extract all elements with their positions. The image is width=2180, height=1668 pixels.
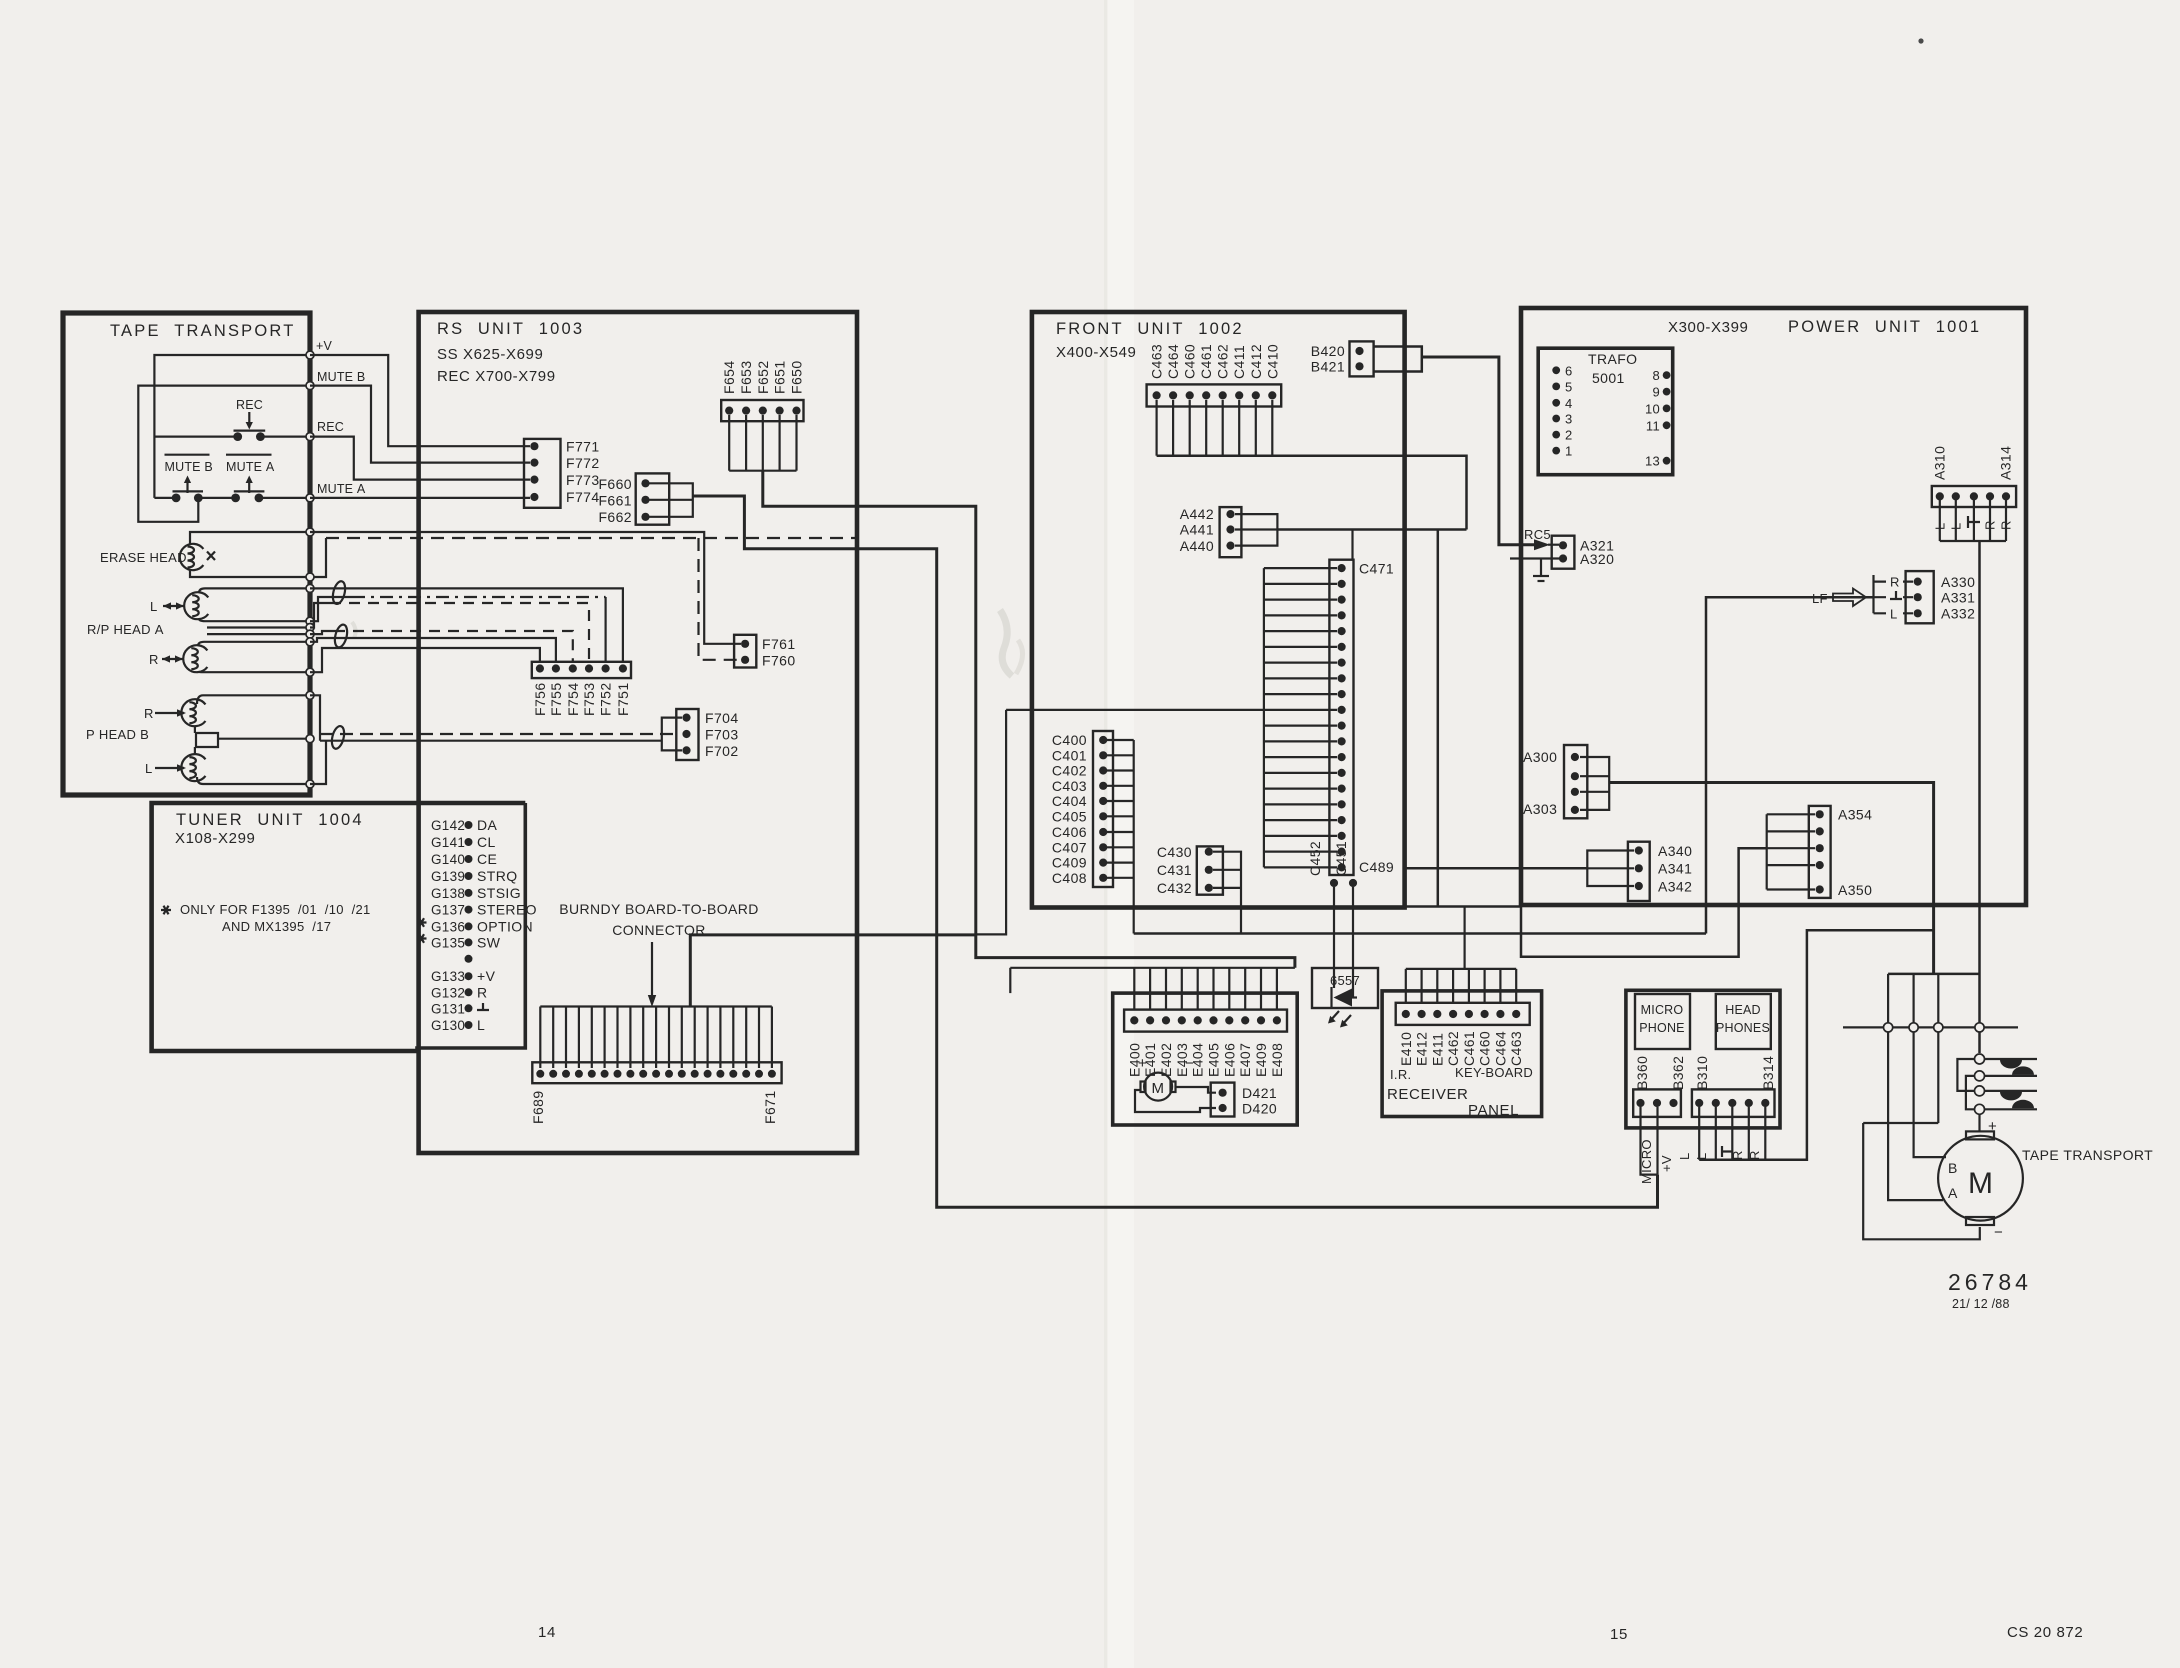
svg-text:C463: C463 <box>1508 1031 1524 1066</box>
wire MUTE A to F774 <box>310 497 530 499</box>
svg-text:A341: A341 <box>1658 861 1692 877</box>
svg-text:A332: A332 <box>1941 606 1975 622</box>
pin C451 <box>1349 879 1357 887</box>
svg-text:A320: A320 <box>1580 551 1614 567</box>
rail crossing junctions <box>1884 1023 1893 1032</box>
connector A310-A314 box <box>1932 486 2016 507</box>
svg-text:C461: C461 <box>1198 344 1214 379</box>
svg-text:F651: F651 <box>772 360 788 394</box>
svg-text:PHONE: PHONE <box>1639 1021 1684 1035</box>
connector A300-A303 box <box>1564 745 1587 818</box>
svg-text:HEAD: HEAD <box>1725 1003 1761 1017</box>
unit box RECEIVER PANEL <box>1382 991 1542 1117</box>
wire receiver bus <box>1406 968 1516 970</box>
svg-text:MUTE A: MUTE A <box>226 460 275 474</box>
svg-text:REC X700-X799: REC X700-X799 <box>437 368 556 385</box>
connector A354-A350 box <box>1809 806 1831 898</box>
svg-text:B314: B314 <box>1760 1056 1776 1090</box>
svg-text:A331: A331 <box>1941 590 1975 606</box>
svg-text:DA: DA <box>477 817 498 833</box>
cable tie ellipse A-R <box>333 623 349 648</box>
svg-text:F752: F752 <box>598 682 614 716</box>
svg-text:F652: F652 <box>755 360 771 394</box>
unit box RS UNIT 1003 <box>419 312 857 1153</box>
unit box FRONT UNIT 1002 <box>1032 312 1405 908</box>
wire head B-L bottom <box>197 777 310 784</box>
svg-text:15: 15 <box>1610 1626 1628 1643</box>
svg-text:F653: F653 <box>738 360 754 394</box>
svg-text:C410: C410 <box>1264 344 1280 379</box>
svg-text:+V: +V <box>477 968 496 984</box>
erase head symbol <box>180 544 204 570</box>
connector F756-F751 box <box>532 662 631 678</box>
svg-text:SS X625-X699: SS X625-X699 <box>437 346 543 363</box>
svg-text:F662: F662 <box>598 509 632 525</box>
wire A44x bus to gap riser <box>1277 528 1466 531</box>
wire gap down-leg to corner line <box>1437 530 1440 907</box>
speck <box>1918 38 1923 43</box>
svg-text:FRONT UNIT 1002: FRONT UNIT 1002 <box>1056 320 1244 338</box>
wire C46x keyboard bus <box>1157 456 1467 530</box>
wire head A-R top <box>198 642 310 646</box>
svg-text:C400: C400 <box>1052 732 1087 748</box>
connector A442-A440 box <box>1220 507 1242 557</box>
connector B420-B421 pins <box>1355 347 1363 355</box>
svg-text:R: R <box>149 652 159 667</box>
svg-text:C463: C463 <box>1149 344 1165 379</box>
svg-text:C402: C402 <box>1052 763 1087 779</box>
svg-text:C432: C432 <box>1157 880 1192 896</box>
svg-text:E405: E405 <box>1206 1043 1222 1077</box>
svg-text:8: 8 <box>1652 368 1660 383</box>
svg-text:14: 14 <box>538 1624 556 1641</box>
junctions tape transport edge <box>306 351 314 359</box>
svg-text:TAPE TRANSPORT: TAPE TRANSPORT <box>110 322 296 340</box>
wire contact4 to motor plus <box>1978 1114 1980 1131</box>
svg-text:C460: C460 <box>1182 344 1198 379</box>
motor M1 symbol <box>1144 1073 1172 1101</box>
cable tie ellipse B <box>330 725 346 750</box>
wire bus drop to motor B <box>1914 974 1946 1157</box>
wire A44x stub to C471 box <box>1351 530 1353 560</box>
wire A34x bracket <box>1587 851 1634 887</box>
wire F65x drops to bus <box>728 415 730 471</box>
connector C400-C408 box <box>1093 731 1113 887</box>
connector F704-F702 box <box>676 709 698 760</box>
svg-text:C407: C407 <box>1052 839 1087 855</box>
svg-text:B: B <box>1948 1160 1958 1176</box>
switch S-REC actuator arrow <box>248 412 250 424</box>
svg-text:A354: A354 <box>1838 807 1872 823</box>
wire pair head A-L return to F752 <box>310 597 352 621</box>
svg-text:C452: C452 <box>1307 841 1323 876</box>
svg-text:F774: F774 <box>566 489 600 505</box>
svg-text:A340: A340 <box>1658 843 1692 859</box>
svg-text:G142: G142 <box>431 818 465 833</box>
LED 6557 box <box>1312 968 1378 1008</box>
svg-text:MUTE B: MUTE B <box>165 460 213 474</box>
connector F689-F671 pins and drops <box>539 1007 541 1069</box>
LED light arrows <box>1330 1011 1339 1021</box>
svg-text:G133: G133 <box>431 969 465 984</box>
svg-text:C409: C409 <box>1052 855 1087 871</box>
wire motor minus loop <box>1863 1123 1980 1239</box>
wire A35x bracket <box>1767 814 1815 889</box>
cable tie ellipse A-L <box>331 580 347 605</box>
svg-text:STRQ: STRQ <box>477 868 518 884</box>
svg-text:R: R <box>1890 575 1900 590</box>
svg-text:F751: F751 <box>615 682 631 716</box>
svg-text:L: L <box>477 1017 485 1033</box>
svg-text:M: M <box>1151 1080 1164 1097</box>
svg-text:STEREO: STEREO <box>477 902 537 918</box>
svg-text:ERASE HEAD: ERASE HEAD <box>100 550 187 565</box>
wire dashed to F754 <box>310 631 334 634</box>
svg-text:B360: B360 <box>1634 1056 1650 1090</box>
burndy pointer arrow <box>651 942 653 997</box>
svg-text:F761: F761 <box>762 636 796 652</box>
head B-R symbol <box>181 699 205 726</box>
wire C451 to LED <box>1352 887 1354 997</box>
wire E-unit feed bus <box>1010 967 1295 969</box>
svg-text:REC: REC <box>317 420 344 434</box>
svg-text:C430: C430 <box>1157 844 1192 860</box>
unit box TAPE TRANSPORT <box>63 313 310 795</box>
connector D421-D420 pins <box>1219 1089 1227 1097</box>
svg-text:PANEL: PANEL <box>1468 1102 1519 1119</box>
svg-text:9: 9 <box>1652 385 1660 400</box>
svg-text:A350: A350 <box>1838 882 1872 898</box>
svg-text:A440: A440 <box>1180 538 1214 554</box>
svg-text:F772: F772 <box>566 455 600 471</box>
head B-R arrow <box>155 712 184 714</box>
connector C471-C489 box <box>1329 560 1353 875</box>
connector B310-B314 box <box>1692 1089 1775 1117</box>
switch contact 4 <box>1975 1104 1985 1114</box>
wire head B riser <box>310 695 320 740</box>
wire A30x bracket <box>1580 757 1609 810</box>
erase head cross mark <box>207 552 215 561</box>
wire A33x LF net to front unit <box>1706 597 1874 933</box>
svg-text:X300-X399: X300-X399 <box>1668 319 1748 336</box>
connector E400-E408 box <box>1124 1010 1287 1032</box>
svg-text:AND MX1395 /17: AND MX1395 /17 <box>222 919 331 934</box>
svg-text:F702: F702 <box>705 743 739 759</box>
wire REC to F773 <box>310 437 530 480</box>
svg-text:A442: A442 <box>1180 506 1214 522</box>
svg-text:A300: A300 <box>1523 749 1557 765</box>
head A-L double arrow <box>163 605 184 607</box>
svg-text:C471: C471 <box>1359 561 1394 577</box>
burndy cable bus <box>540 1005 772 1007</box>
connector F771-F774 box <box>524 439 561 508</box>
svg-text:R: R <box>144 706 154 721</box>
switch S-MUTEA bar <box>234 490 265 492</box>
connector B420-B421 box <box>1350 341 1374 376</box>
svg-text:KEY-BOARD: KEY-BOARD <box>1455 1065 1533 1080</box>
svg-text:C462: C462 <box>1215 344 1231 379</box>
svg-text:G136: G136 <box>431 919 465 934</box>
svg-text:TRAFO: TRAFO <box>1588 351 1637 367</box>
wire erase dashed drop to F760 <box>699 538 742 660</box>
wire bus drop to motor A <box>1888 974 1943 1200</box>
wire A35x loop to power corner <box>1521 848 1767 957</box>
switch S-MUTEB overline <box>165 454 210 456</box>
svg-text:F771: F771 <box>566 439 600 455</box>
wire A31x drop to motor switch <box>1978 541 1981 1053</box>
svg-text:G135: G135 <box>431 935 465 950</box>
wire ground link <box>1863 1122 1938 1124</box>
svg-text:SW: SW <box>477 934 501 950</box>
svg-text:C405: C405 <box>1052 808 1087 824</box>
svg-text:R: R <box>1983 520 1998 530</box>
svg-text:G132: G132 <box>431 985 465 1000</box>
footnote asterisk <box>161 906 171 915</box>
svg-text:B310: B310 <box>1694 1056 1710 1090</box>
connector C471-C489 pins and row wires <box>1338 564 1346 572</box>
connector E410-C463 box <box>1396 1003 1530 1025</box>
svg-text:C460: C460 <box>1477 1031 1493 1066</box>
svg-text:REC: REC <box>236 398 263 412</box>
svg-text:RS UNIT 1003: RS UNIT 1003 <box>437 320 584 338</box>
connector D421-D420 box <box>1211 1083 1235 1117</box>
wire F704 F702 bracket <box>662 718 682 751</box>
connector A300-A303 pins <box>1571 753 1579 761</box>
svg-text:RECEIVER: RECEIVER <box>1387 1086 1469 1103</box>
svg-text:F773: F773 <box>566 472 600 488</box>
svg-text:POWER UNIT 1001: POWER UNIT 1001 <box>1788 318 1981 336</box>
wire dashed head B to F703 <box>320 733 680 735</box>
connector F660-F662 pins <box>641 479 649 487</box>
switch S-MUTEA actuator arrow <box>248 481 250 493</box>
svg-text:F704: F704 <box>705 710 739 726</box>
switch S-MUTEB contacts and wire <box>154 497 176 499</box>
svg-text:MICRO: MICRO <box>1641 1003 1684 1017</box>
svg-text:BURNDY BOARD-TO-BOARD: BURNDY BOARD-TO-BOARD <box>559 901 759 917</box>
switch S-MUTEA overline <box>226 454 272 456</box>
svg-text:A330: A330 <box>1941 574 1975 590</box>
wire to F755 <box>310 638 556 662</box>
svg-text:L: L <box>1933 522 1948 530</box>
connector A340-A342 box <box>1628 842 1650 901</box>
trafo left pins 6-1 <box>1552 366 1560 374</box>
connector F660-F662 box <box>636 473 670 524</box>
connector F756-F751 pins <box>536 664 544 672</box>
svg-text:F760: F760 <box>762 653 796 669</box>
svg-text:C408: C408 <box>1052 870 1087 886</box>
wire C47x left bar <box>1263 568 1265 867</box>
connector F761-F760 pins <box>741 640 749 648</box>
svg-text:F650: F650 <box>789 360 805 394</box>
connector F771-F774 pins <box>530 442 538 450</box>
connector E400-E408 pins drops and labels <box>1133 968 1135 1010</box>
wire F660-F662 bracket <box>649 483 693 517</box>
switch S-REC contacts and wire <box>154 436 237 438</box>
asterisk G135 <box>417 934 427 943</box>
wire C40x right bar and drop <box>1133 740 1135 934</box>
svg-text:M: M <box>1968 1167 1993 1200</box>
svg-text:STSIG: STSIG <box>477 885 521 901</box>
svg-text:E411: E411 <box>1429 1033 1445 1066</box>
connector A442-A440 pins <box>1226 510 1234 518</box>
burndy riser to mic wire <box>690 935 974 1007</box>
wire B360 B362 pin drops <box>1641 1107 1658 1175</box>
svg-text:5001: 5001 <box>1592 370 1625 386</box>
asterisk G136 <box>417 918 427 927</box>
svg-text:4: 4 <box>1565 396 1573 411</box>
wire arrow to pin A321 <box>1548 544 1559 546</box>
svg-text:C403: C403 <box>1052 778 1087 794</box>
wire erase dashed riser <box>310 538 326 577</box>
wire F652 net to front unit <box>763 471 1295 968</box>
LF block arrow <box>1833 589 1866 607</box>
svg-text:TAPE TRANSPORT: TAPE TRANSPORT <box>2022 1147 2153 1163</box>
svg-text:C411: C411 <box>1231 345 1247 379</box>
trafo right pins 8-13 <box>1663 371 1671 379</box>
svg-text:C431: C431 <box>1157 862 1192 878</box>
wire W1 to LF net <box>1134 932 1706 935</box>
svg-text:F671: F671 <box>762 1090 778 1124</box>
head B-L arrow <box>155 767 184 769</box>
connector F704-F702 pins <box>682 714 690 722</box>
svg-text:F703: F703 <box>705 727 739 743</box>
wire C452 to LED <box>1333 887 1335 988</box>
svg-text:TUNER UNIT 1004: TUNER UNIT 1004 <box>176 811 364 829</box>
svg-text:+V: +V <box>316 339 332 353</box>
wire A320 ground stub <box>1510 559 1559 577</box>
paper fold crease <box>1104 0 1107 1668</box>
motor M2 tape transport symbol <box>1938 1136 2023 1221</box>
svg-text:B420: B420 <box>1311 343 1345 359</box>
svg-text:L: L <box>1949 522 1964 530</box>
svg-text:C464: C464 <box>1492 1031 1508 1066</box>
connector A340-A342 pins <box>1635 846 1643 854</box>
svg-text:RC5: RC5 <box>1524 527 1551 542</box>
connector C463-C410 pins drops and labels <box>1153 391 1161 399</box>
svg-text:G141: G141 <box>431 835 465 850</box>
wire front to power gap link <box>1405 905 1521 908</box>
pin C452 <box>1330 879 1338 887</box>
svg-text:21/ 12 /88: 21/ 12 /88 <box>1952 1297 2010 1311</box>
svg-text:A: A <box>1948 1185 1958 1201</box>
wire erase head top <box>190 532 310 545</box>
svg-text:E412: E412 <box>1414 1032 1430 1066</box>
wire motor to D421 <box>1176 1087 1217 1093</box>
svg-text:E408: E408 <box>1269 1043 1285 1077</box>
svg-text:F661: F661 <box>598 493 632 509</box>
svg-text:A303: A303 <box>1523 801 1557 817</box>
svg-text:G139: G139 <box>431 869 465 884</box>
svg-text:E409: E409 <box>1253 1043 1269 1077</box>
ground mark A331 <box>1890 591 1902 599</box>
svg-text:11: 11 <box>1646 418 1660 433</box>
svg-text:G140: G140 <box>431 852 465 867</box>
connector A321-A320 pins <box>1559 541 1567 549</box>
connector C463-C410 box <box>1147 384 1282 406</box>
svg-text:C401: C401 <box>1052 747 1087 763</box>
connector A310-A314 pins and drops <box>1936 492 1944 500</box>
connector A330-A332 box <box>1906 571 1934 623</box>
svg-text:B362: B362 <box>1670 1056 1686 1090</box>
unit box MICRO-HEADPHONES <box>1626 990 1780 1128</box>
svg-text:F689: F689 <box>530 1090 546 1124</box>
svg-text:D421: D421 <box>1242 1085 1277 1101</box>
svg-text:A441: A441 <box>1180 522 1214 538</box>
connector A321-A320 box <box>1552 536 1575 569</box>
svg-text:C406: C406 <box>1052 824 1087 840</box>
wire MUTE B return rail <box>138 386 310 522</box>
svg-text:C462: C462 <box>1445 1031 1461 1066</box>
wire A30x to motor bus <box>1609 783 1933 974</box>
svg-text:X108-X299: X108-X299 <box>175 830 255 847</box>
wire head A-R bottom <box>198 670 310 673</box>
svg-text:A314: A314 <box>1998 446 2014 480</box>
svg-text:MUTE B: MUTE B <box>317 370 365 384</box>
cam lobes <box>2000 1060 2022 1069</box>
head A-L symbol <box>184 592 208 619</box>
svg-text:G130: G130 <box>431 1018 465 1033</box>
svg-text:G138: G138 <box>431 886 465 901</box>
terminal G131 ground mark <box>477 1003 489 1010</box>
wire bus drop to ground link <box>1937 974 1939 1123</box>
switch contact 3 <box>1975 1086 1985 1096</box>
wire headphone pin drops <box>1698 1107 1700 1160</box>
svg-text:MICRO: MICRO <box>1639 1139 1654 1184</box>
smudge artifact <box>1000 610 1012 676</box>
svg-text:OPTION: OPTION <box>477 918 533 934</box>
micro phone inner box <box>1635 994 1690 1049</box>
wire motor feed bus <box>1888 973 1980 976</box>
wire headphone bus to power net <box>1699 930 1933 1159</box>
svg-text:E407: E407 <box>1237 1043 1253 1077</box>
head B-L symbol <box>181 754 205 781</box>
svg-text:MUTE A: MUTE A <box>317 482 366 496</box>
svg-text:P HEAD B: P HEAD B <box>86 727 149 742</box>
svg-text:C489: C489 <box>1359 859 1394 875</box>
svg-text:LF: LF <box>1812 591 1828 606</box>
svg-text:F755: F755 <box>548 682 564 716</box>
connector F654-F650 pins <box>725 407 733 415</box>
wire B42x RC5 to power unit <box>1422 357 1534 545</box>
svg-text:5: 5 <box>1565 379 1573 394</box>
svg-text:E410: E410 <box>1398 1032 1414 1066</box>
switch contact 2 <box>1975 1071 1985 1081</box>
wire head A-L top <box>199 588 310 593</box>
svg-text:I.R.: I.R. <box>1390 1067 1411 1082</box>
connector E410-C463 pins drops and labels <box>1405 969 1407 1003</box>
svg-text:A342: A342 <box>1658 879 1692 895</box>
wire dashed to F753 <box>310 603 330 628</box>
head B centre tap box <box>195 726 218 755</box>
wire C47x row10 to E-unit riser <box>975 710 1007 935</box>
wire head A-L bottom <box>199 619 310 622</box>
svg-text:13: 13 <box>1645 454 1660 469</box>
connector B360-B362 box <box>1633 1089 1681 1117</box>
svg-text:3: 3 <box>1565 412 1573 427</box>
svg-text:C464: C464 <box>1165 344 1181 379</box>
svg-text:E406: E406 <box>1221 1043 1237 1077</box>
connector F654-F650 box <box>721 400 803 421</box>
wire MUTE B to F772 <box>310 386 530 463</box>
svg-text:L: L <box>145 761 153 776</box>
wire head B solid to F704 F702 bracket <box>320 740 662 742</box>
unit box POWER UNIT 1001 <box>1521 308 2026 905</box>
unit box TUNER UNIT 1004 <box>152 803 526 1051</box>
svg-text:A310: A310 <box>1932 446 1948 480</box>
connector A330-A332 pins <box>1914 578 1922 586</box>
svg-text:X400-X549: X400-X549 <box>1056 344 1136 361</box>
connector A354-A350 pins <box>1816 810 1824 818</box>
